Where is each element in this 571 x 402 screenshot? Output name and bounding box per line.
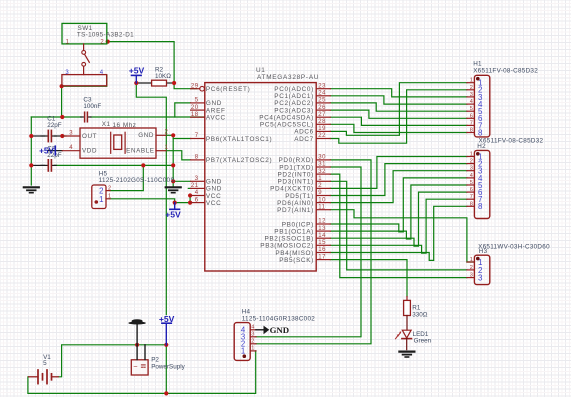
svg-text:PD6(AIN0): PD6(AIN0) [277, 200, 314, 207]
connector H1 pin1 marker [476, 77, 480, 81]
connector H4 pin3 number [251, 332, 254, 338]
junction [60, 134, 64, 138]
svg-text:VDD: VDD [82, 148, 97, 155]
svg-text:26: 26 [318, 105, 326, 111]
svg-text:~: ~ [133, 362, 137, 371]
connector H4 name [242, 308, 251, 315]
svg-text:1: 1 [241, 347, 245, 356]
wire X1 vertical to GND2 [172, 135, 174, 186]
wire PD6 to H2 pin3 [330, 171, 467, 203]
svg-text:3: 3 [470, 166, 473, 172]
svg-text:1: 1 [108, 194, 111, 200]
connector H2 pin1 number [470, 152, 473, 158]
connector H2 pin3 number [470, 166, 473, 172]
IC U1 right pin 25 number [318, 98, 326, 104]
IC U1 right pin 16 number [318, 247, 326, 253]
IC U1 right pin name PC1(ADC1) [274, 93, 314, 100]
IC U1 right pin 28 number [318, 119, 326, 125]
connector H1 pin6 stub [467, 117, 475, 119]
wire PB6 to X1 column [173, 138, 190, 140]
wire battery left to bottom rail [28, 351, 256, 394]
connector H3 box [474, 255, 489, 284]
crystal X1 pin3 number [69, 130, 73, 136]
IC U1 right pin 9 number [318, 190, 322, 196]
connector H1 pin1 stub [467, 82, 475, 84]
IC U1 right pin 13 number [318, 226, 326, 232]
wire C2 row west [31, 164, 44, 166]
wire P2 row to +5V node [137, 344, 166, 346]
IC U1 left pin 21 stub [191, 187, 205, 189]
wire +5V to R2 left [136, 82, 151, 84]
wire ADC6 to H1 pin1 [330, 83, 467, 136]
resistor R2 value [155, 73, 171, 80]
IC U1 right pin name PD0(RXD) [279, 157, 314, 164]
IC U1 right pin 26 stub [316, 109, 330, 111]
svg-text:GND: GND [206, 100, 222, 107]
IC U1 right pin 19 stub [316, 130, 330, 132]
svg-text:22pF: 22pF [47, 122, 62, 129]
IC U1 left pin 7 stub [191, 138, 205, 140]
IC U1 right pin 32 number [318, 169, 326, 175]
IC U1 right pin name PC4(ADC4SDA) [259, 115, 314, 122]
svg-text:29: 29 [191, 83, 199, 89]
connector H2 pin7 stub [467, 198, 475, 200]
svg-text:ATMEGA328P-AU: ATMEGA328P-AU [257, 74, 319, 81]
connector H2 pin4 number [470, 173, 473, 179]
connector H4 value [242, 316, 316, 323]
svg-text:5: 5 [43, 360, 47, 367]
ground G1 (left) [24, 187, 39, 192]
connector H4 pin2 stub [250, 343, 256, 345]
wire +5V down to VCC rail and bottom [136, 83, 166, 315]
junction [60, 84, 64, 88]
wire X1 GND pin east [166, 134, 173, 136]
connector H4 pin2 number [251, 339, 254, 345]
svg-text:6: 6 [195, 197, 199, 203]
connector H3 value [478, 244, 550, 251]
connector H1 pin3 stub [467, 96, 475, 98]
crystal X1 pin1 stub [156, 150, 166, 152]
IC U1 left pin 3 number [195, 176, 199, 182]
junction [173, 201, 177, 205]
junction [106, 40, 110, 44]
connector H1 blue 2 [478, 86, 483, 95]
svg-text:3: 3 [195, 176, 199, 182]
svg-text:15: 15 [318, 240, 326, 246]
IC U1 right pin 27 stub [316, 116, 330, 118]
crystal X1 pin4 stub [62, 150, 80, 152]
wire PB4 to H2 pin8 [330, 206, 467, 260]
connector H4 blue 2 [241, 340, 245, 349]
wire C3 row west [31, 116, 81, 118]
svg-text:1: 1 [99, 195, 103, 204]
svg-text:PC5(ADC5SCL): PC5(ADC5SCL) [260, 122, 314, 129]
svg-text:2: 2 [470, 265, 473, 271]
svg-text:12: 12 [318, 219, 326, 225]
svg-text:+5V: +5V [129, 66, 145, 76]
connector H5 blue 2 [99, 187, 103, 196]
IC U1 right pin 9 stub [316, 195, 330, 197]
wire U1 GND5 to AVCC row [175, 103, 191, 117]
IC U1 right pin name ADC7 [294, 136, 314, 143]
svg-text:GND: GND [206, 186, 222, 193]
capacitor C3 value [83, 103, 101, 110]
power supply P2 pins [137, 345, 145, 360]
svg-text:4: 4 [195, 190, 199, 196]
crystal X1 GND label [138, 132, 154, 139]
IC U1 right pin 30 stub [316, 159, 330, 161]
IC U1 left pin 5 stub [191, 102, 205, 104]
IC U1 right pin name PB4(MISO) [275, 250, 314, 257]
IC U1 right pin name PD2(INT0) [278, 171, 314, 178]
IC U1 right pin 1 stub [316, 180, 330, 182]
crystal X1 symbol [111, 132, 125, 153]
svg-text:1: 1 [470, 152, 473, 158]
supply +5V (X1 VDD) [39, 146, 62, 155]
wire PB3 to H2 pin7 [330, 199, 467, 253]
IC U1 right pin 13 stub [316, 230, 330, 232]
battery V1 value 5 [43, 360, 47, 367]
IC U1 right pin name PD5(T1) [285, 193, 314, 200]
svg-text:8: 8 [478, 202, 483, 211]
junction [29, 134, 33, 138]
svg-text:2: 2 [251, 339, 254, 345]
connector H4 box [234, 323, 250, 361]
connector H1 pin7 number [470, 120, 473, 126]
IC U1 left pin name PC6(RESET) [206, 86, 251, 93]
svg-text:3: 3 [470, 92, 473, 98]
svg-text:X6511WV-03H-C30D60: X6511WV-03H-C30D60 [478, 244, 550, 251]
connector H2 pin1 stub [467, 156, 475, 158]
IC U1 left pin 20 number [191, 105, 199, 111]
svg-text:PowerSuply: PowerSuply [151, 363, 185, 370]
svg-text:PB1(OC1A): PB1(OC1A) [274, 228, 314, 235]
connector H1 blue 3 [478, 93, 483, 102]
wire PB5 to R1 [330, 260, 407, 297]
svg-text:PB3(MOSIOC2): PB3(MOSIOC2) [260, 243, 314, 250]
svg-text:OUT: OUT [82, 133, 97, 140]
svg-text:PC3(ADC3): PC3(ADC3) [274, 107, 314, 114]
connector H1 pin2 stub [467, 89, 475, 91]
junction [29, 163, 33, 167]
connector H4 blue 4 [241, 326, 246, 335]
crystal X1 name [102, 121, 111, 128]
capacitor C2 [41, 160, 56, 171]
connector H2 pin6 stub [467, 191, 475, 193]
IC U1 right pin 23 number [318, 83, 326, 89]
wire SW1 lower box to pin4 [62, 75, 107, 86]
svg-text:H4: H4 [242, 308, 251, 315]
svg-text:8: 8 [470, 128, 473, 134]
switch SW1 label SW1 [78, 25, 93, 32]
svg-text:PB5(SCK): PB5(SCK) [279, 257, 314, 264]
svg-text:31: 31 [318, 162, 326, 168]
IC U1 right pin 24 stub [316, 95, 330, 97]
IC U1 right pin name PC5(ADC5SCL) [260, 122, 314, 129]
wire PC5 to H1 pin8 [330, 124, 467, 132]
IC U1 right pin 17 stub [316, 259, 330, 261]
svg-text:Green: Green [414, 338, 432, 345]
connector H1 pin2 number [470, 85, 473, 91]
connector H3 pin2 number [470, 265, 473, 271]
crystal X1 pin4 number [69, 145, 73, 151]
switch SW1 pin4 number [100, 70, 104, 76]
supply +5V (R2) [129, 66, 145, 83]
svg-text:PD3(INT1): PD3(INT1) [278, 179, 314, 186]
IC U1 left pin 4 stub [191, 195, 205, 197]
connector H2 blue 1 [478, 152, 483, 161]
wire battery right riser [58, 345, 137, 377]
svg-text:PB6(XTAL1TOSC1): PB6(XTAL1TOSC1) [206, 136, 272, 143]
svg-text:100nF: 100nF [83, 103, 101, 110]
IC U1 right pin name PB2(SSOC1B) [264, 236, 313, 243]
svg-text:+5V: +5V [39, 146, 54, 155]
IC U1 right pin 15 stub [316, 244, 330, 246]
connector H3 blue 1 [478, 258, 483, 267]
svg-text:PD1(TXD): PD1(TXD) [279, 164, 314, 171]
IC U1 pin29 RESET stub+bubble [191, 86, 205, 91]
wire C3 row east to AVCC [91, 116, 205, 118]
connector H2 pin4 stub [467, 177, 475, 179]
svg-text:GND: GND [138, 132, 154, 139]
resistor R2 name [155, 67, 164, 74]
svg-text:23: 23 [318, 83, 326, 89]
ground G2 (X1 column) [166, 187, 181, 192]
wire PC0 to H1 pin3 [330, 89, 467, 97]
svg-text:5: 5 [470, 180, 473, 186]
IC U1 left pin name GND [206, 179, 222, 186]
svg-text:R1: R1 [412, 304, 421, 311]
IC U1 value ATMEGA328P-AU [257, 74, 319, 81]
IC U1 right pin name PC2(ADC2) [274, 100, 314, 107]
svg-text:3: 3 [478, 274, 483, 283]
connector H2 pin8 stub [467, 205, 475, 207]
IC U1 right pin 30 number [318, 155, 326, 161]
capacitor C3 name [83, 96, 92, 103]
IC U1 right pin 11 number [318, 204, 325, 210]
crystal X1 box [80, 128, 156, 158]
IC U1 left pin 29 number [191, 83, 199, 89]
IC U1 right pin name PB0(ICP) [282, 221, 314, 228]
IC U1 right pin 22 stub [316, 138, 330, 140]
IC U1 left pin 3 stub [191, 180, 205, 182]
svg-text:1125-2102G0S-110C00S: 1125-2102G0S-110C00S [99, 177, 175, 184]
switch SW1 value TS-1095-A3B2-D1 [77, 31, 134, 38]
connector H2 name [477, 143, 486, 150]
connector H2 pin2 stub [467, 163, 475, 165]
junction [60, 115, 64, 119]
IC U1 left pin 5 number [195, 98, 199, 104]
wire U1 GND3 west [173, 180, 190, 182]
IC U1 right pin 31 number [318, 162, 326, 168]
svg-text:1: 1 [470, 78, 473, 84]
wire PD1 to H4 pin3 [256, 167, 361, 337]
svg-text:2: 2 [470, 85, 473, 91]
crystal X1 ENABLE label [126, 148, 154, 155]
junction [164, 343, 168, 347]
connector H2 blue 4 [478, 174, 483, 183]
svg-text:PD4(XCKT0): PD4(XCKT0) [270, 186, 314, 193]
svg-text:20: 20 [191, 105, 199, 111]
wire PC2 to H1 pin5 [330, 103, 467, 111]
svg-text:330Ω: 330Ω [412, 311, 428, 318]
wire PD3 to H3 pin2 [330, 181, 467, 270]
IC U1 right pin 12 number [318, 219, 326, 225]
LED LED1 name [413, 331, 429, 338]
junction [188, 201, 192, 205]
connector H3 name [479, 248, 488, 255]
svg-text:PC2(ADC2): PC2(ADC2) [274, 100, 314, 107]
IC U1 right pin 19 number [318, 126, 326, 132]
connector H2 value [479, 138, 544, 145]
IC U1 right pin name PD4(XCKT0) [270, 186, 314, 193]
IC U1 left pin name GND [206, 186, 222, 193]
connector H1 blue 5 [478, 107, 483, 116]
connector H1 pin1 number [470, 78, 473, 84]
IC U1 right pin 14 number [318, 233, 326, 239]
wire H5 pin1 row [110, 199, 190, 203]
connector H2 pin2 number [470, 159, 473, 165]
IC U1 box [205, 83, 316, 271]
junction [141, 163, 145, 167]
svg-text:TS-1095-A3B2-D1: TS-1095-A3B2-D1 [77, 31, 134, 38]
svg-text:32: 32 [318, 169, 326, 175]
connector H3 blue 2 [478, 266, 483, 275]
svg-text:PC4(ADC4SDA): PC4(ADC4SDA) [259, 115, 314, 122]
resistor R1 [404, 297, 411, 331]
svg-text:1: 1 [470, 257, 473, 263]
svg-text:PB7(XTAL2TOSC2): PB7(XTAL2TOSC2) [206, 157, 272, 164]
IC U1 left pin 4 number [195, 190, 199, 196]
svg-text:VCC: VCC [206, 200, 221, 207]
LED LED1 arrows [395, 331, 401, 339]
connector H1 pin6 number [470, 113, 473, 119]
connector H1 pin8 stub [467, 132, 475, 134]
crystal X1 VDD label [82, 148, 97, 155]
connector H3 pin2 stub [467, 269, 475, 271]
connector H4 pin1 stub [250, 350, 256, 352]
IC U1 left pin 20 stub [191, 109, 205, 111]
connector H5 marker dot [95, 200, 99, 204]
connector H3 pin1 number [470, 257, 473, 263]
svg-text:16 Mhz: 16 Mhz [113, 122, 137, 129]
IC U1 right pin 27 number [318, 112, 326, 118]
connector H5 pin2 stub [106, 190, 110, 192]
svg-text:25: 25 [318, 98, 326, 104]
svg-text:U1: U1 [256, 67, 265, 74]
connector H4 pin3 stub [250, 336, 256, 338]
IC U1 left pin name AREF [206, 107, 226, 114]
svg-text:PD5(T1): PD5(T1) [285, 193, 314, 200]
power supply P2 name [151, 357, 159, 364]
power supply P2 glyphs [133, 362, 145, 371]
svg-text:ADC6: ADC6 [294, 129, 314, 136]
svg-text:11: 11 [318, 204, 325, 210]
IC U1 right pin name PC3(ADC3) [274, 107, 314, 114]
IC U1 right pin name PD7(AIN1) [277, 207, 314, 214]
wire H5 pin2 riser [110, 165, 143, 190]
svg-text:6: 6 [470, 187, 473, 193]
connector H1 blue 6 [478, 114, 483, 123]
IC U1 right pin 26 number [318, 105, 326, 111]
IC U1 right pin 14 stub [316, 237, 330, 239]
svg-text:2: 2 [108, 185, 111, 191]
connector H1 pin5 stub [467, 110, 475, 112]
connector H1 blue 8 [478, 128, 483, 137]
wire PB0 to H2 pin4 [330, 178, 467, 232]
IC U1 left pin 18 number [191, 112, 199, 118]
IC U1 right pin name PD3(INT1) [278, 179, 314, 186]
battery V1 symbol [29, 370, 59, 384]
IC U1 left pin 18 stub [191, 116, 205, 118]
IC U1 right pin 28 stub [316, 123, 330, 125]
LED LED1 symbol [402, 330, 412, 349]
svg-text:PB2(SSOC1B): PB2(SSOC1B) [264, 236, 313, 243]
wire PD2 to H3 pin3 [330, 174, 467, 278]
svg-text:PC0(ADC0): PC0(ADC0) [274, 86, 314, 93]
wire C1 to X1 OUT [55, 135, 63, 137]
svg-text:3: 3 [251, 332, 254, 338]
svg-text:22: 22 [318, 133, 326, 139]
IC U1 left pin name AVCC [206, 115, 226, 122]
svg-text:24: 24 [318, 91, 326, 97]
connector H1 value [473, 67, 538, 74]
connector H1 name [473, 60, 482, 67]
wire +5V P2 column lower [165, 345, 167, 394]
switch SW1 lower box [62, 75, 107, 86]
wire C2 row east [55, 164, 174, 166]
svg-text:GND: GND [270, 325, 290, 335]
svg-text:+5V: +5V [165, 209, 181, 219]
svg-text:5: 5 [470, 106, 473, 112]
wire PB2 to H2 pin6 [330, 192, 467, 246]
svg-text:X6511FV-08-C85D32: X6511FV-08-C85D32 [473, 67, 538, 74]
connector H5 pin2 number [108, 185, 111, 191]
battery V1 name [43, 354, 51, 361]
connector H3 pin3 number [470, 273, 473, 279]
connector H5 pin1 number [108, 194, 111, 200]
svg-text:PB4(MISO): PB4(MISO) [275, 250, 314, 257]
wire PC4 to H1 pin7 [330, 117, 467, 125]
switch SW1 lever assembly [82, 44, 90, 75]
resistor R2 [152, 80, 167, 86]
supply +5V (H5) [165, 203, 181, 220]
IC U1 right pin 22 number [318, 133, 326, 139]
connector H4 pin4 stub [250, 329, 256, 331]
crystal X1 value 16 Mhz [113, 122, 137, 129]
svg-text:VCC: VCC [206, 193, 221, 200]
wire PC1 to H1 pin4 [330, 96, 467, 104]
wire SW1 pin2 to R2/RESET vertical [108, 42, 197, 89]
crystal X1 pin3 stub [62, 135, 80, 137]
GND net label text [270, 325, 290, 335]
wire PD0 to H4 pin2 [256, 160, 371, 344]
svg-text:18: 18 [191, 112, 199, 118]
svg-text:X6511FV-08-C85D32: X6511FV-08-C85D32 [479, 138, 544, 145]
IC U1 left pin name PB7(XTAL2TOSC2) [206, 157, 272, 164]
wire C1/C2 left vertical [30, 117, 32, 185]
connector H1 blue 1 [478, 79, 483, 88]
IC U1 left pin name VCC [206, 193, 221, 200]
svg-text:21: 21 [191, 183, 199, 189]
wire PD7 to H3 pin1 [330, 210, 474, 262]
IC U1 right pin 16 stub [316, 252, 330, 254]
crystal X1 pin1 number [165, 145, 169, 151]
connector H4 blue 3 [241, 333, 245, 342]
svg-text:14: 14 [318, 233, 326, 239]
connector H1 pin5 number [470, 106, 473, 112]
wire ADC7 to H1 pin2 [330, 90, 467, 143]
